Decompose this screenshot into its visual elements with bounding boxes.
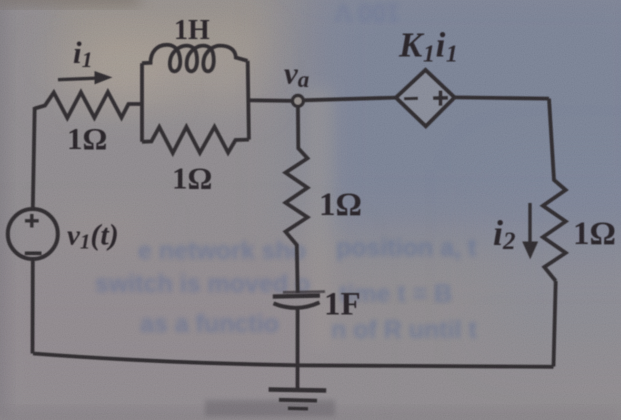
wire node to diamond [304, 98, 396, 101]
wire left vertical top [33, 107, 35, 210]
wire diamond to top right corner [455, 97, 550, 98]
current arrow i1 [58, 72, 111, 84]
ground [269, 390, 327, 409]
dark brown sliver top edge [0, 0, 140, 4]
beige halo around inductor block [85, 30, 260, 105]
capacitor C1 1F [273, 292, 325, 308]
resistor R2 1ohm parallel [142, 127, 249, 153]
wire capacitor to ground [296, 310, 300, 390]
resistor R4 1ohm right [543, 99, 566, 281]
wire node down + resistor R3 1ohm middle [286, 106, 308, 293]
dark blob bottom centre [205, 400, 335, 416]
wire source to bottom corner [31, 259, 35, 354]
pinkish lower left region [0, 250, 330, 410]
darker bottom edge [0, 411, 621, 420]
voltage source V1 [8, 209, 58, 259]
dependent source K1i1 [396, 70, 455, 126]
wire bottom [33, 354, 554, 367]
darker left edge [0, 0, 6, 420]
inductor L1 1H [142, 45, 248, 72]
beige patch top left [55, 0, 270, 60]
current arrow i2 [523, 203, 537, 258]
bleed-through blue text from underlying page [95, 0, 477, 344]
node va [293, 96, 304, 107]
resistor R1 1ohm left [35, 92, 143, 118]
blue-grey wash top right [305, 0, 621, 235]
wire right resistor to bottom corner [554, 281, 556, 367]
wire block to node va [249, 98, 292, 102]
blue-grey wash right edge [490, 170, 621, 340]
light band right of node [305, 90, 333, 350]
parallel block right edge wire [248, 61, 249, 140]
parallel block left edge wire [140, 63, 144, 142]
